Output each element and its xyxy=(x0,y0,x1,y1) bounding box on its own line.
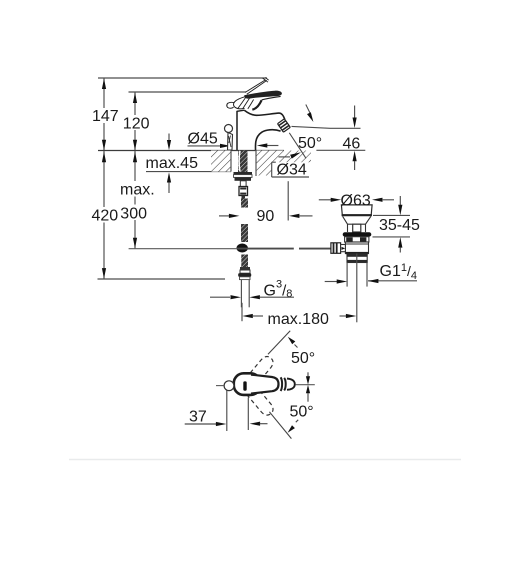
arrow max45 up xyxy=(168,182,170,193)
plan lever tip xyxy=(287,379,295,390)
arrow 420 down xyxy=(102,268,106,279)
svg-text:Ø34: Ø34 xyxy=(277,162,307,179)
supply hose segment 3 xyxy=(241,255,248,268)
arrow 147 up xyxy=(102,79,106,90)
aerator ball outlet xyxy=(277,119,290,132)
wire pull rod reference line xyxy=(129,248,237,250)
svg-text:max.45: max.45 xyxy=(146,155,199,172)
plan centerline right xyxy=(296,384,315,386)
hose connector block xyxy=(239,187,248,196)
plan converge arrows xyxy=(307,372,309,377)
svg-text:90: 90 xyxy=(257,208,275,225)
plan 50 upper leader arrow xyxy=(295,345,298,348)
plan handle dot xyxy=(243,381,246,390)
label 420 xyxy=(90,207,119,223)
svg-text:50°: 50° xyxy=(298,135,322,152)
label max. xyxy=(119,181,153,197)
arrow max300 down xyxy=(133,238,137,249)
svg-text:300: 300 xyxy=(120,205,147,222)
supply hose segment 1 xyxy=(241,199,248,208)
wire extension line x104 xyxy=(103,78,105,279)
separator rule xyxy=(69,459,461,461)
svg-text:max.180: max.180 xyxy=(268,311,329,328)
arrow 120 down xyxy=(133,140,137,151)
mounting washer xyxy=(234,172,253,175)
deck slab left (hatched) xyxy=(211,151,231,172)
waste mid body xyxy=(345,242,368,253)
plan dashed lever lower 50 xyxy=(246,385,276,417)
plan body (cartridge housing) xyxy=(234,373,261,395)
label 300 xyxy=(119,205,151,221)
svg-text:Ø45: Ø45 xyxy=(188,131,218,148)
wire D34 extension to 90 dim xyxy=(287,181,289,220)
arrow D45 left xyxy=(267,145,279,147)
svg-text:37: 37 xyxy=(189,409,207,426)
handle raised ghost lines xyxy=(247,80,267,94)
wire deck top right segment to 46 dim xyxy=(316,149,365,151)
plan knob circle xyxy=(224,381,234,391)
pop-up knob stem xyxy=(228,133,233,151)
junction dot xyxy=(237,244,248,253)
arrow 50deg lower (on axis) xyxy=(279,156,291,158)
mounting nut xyxy=(235,177,252,180)
svg-text:50°: 50° xyxy=(290,404,314,421)
arrow 420 up xyxy=(102,152,106,163)
svg-text:120: 120 xyxy=(123,115,150,132)
dimension 90 xyxy=(219,215,230,217)
wire spout axis diagonal xyxy=(289,133,306,159)
dimension 46 xyxy=(354,106,356,119)
plan dashed lever upper 50 xyxy=(246,354,276,386)
waste tail pipe xyxy=(346,263,348,287)
body left edge xyxy=(236,111,238,150)
wire deck bottom line left xyxy=(146,171,231,173)
arrow max300 up xyxy=(133,152,137,163)
svg-text:147: 147 xyxy=(92,108,119,125)
label 147 xyxy=(91,108,119,123)
wire deck top surface line xyxy=(98,150,284,152)
pop-up waste assembly xyxy=(331,205,372,322)
spout underside and body right edge xyxy=(255,130,280,150)
arrow 147 down xyxy=(102,140,106,151)
arrow 120 up xyxy=(133,93,137,104)
waste upper body xyxy=(345,237,369,242)
waste center line xyxy=(356,254,358,323)
G3/8 tail pipe xyxy=(240,280,242,308)
svg-text:Ø63: Ø63 xyxy=(341,193,371,210)
wire bottom reference line 420 xyxy=(98,278,226,280)
wire horizontal ray xyxy=(292,126,361,128)
plan lever xyxy=(251,375,279,394)
plan centerline left xyxy=(216,385,224,387)
spout top edge xyxy=(244,110,284,119)
G3/8 connector xyxy=(240,267,250,270)
arrow D45 right xyxy=(188,145,222,147)
faucet shank through deck (dense hatch) xyxy=(238,151,248,173)
label 120 xyxy=(122,115,150,130)
handle rear sketch curls xyxy=(234,96,247,108)
hose neck xyxy=(242,196,246,199)
wire top reference line 147 xyxy=(98,77,267,79)
pull rod xyxy=(237,248,294,250)
waste notch xyxy=(353,224,361,232)
pop-up knob circle xyxy=(225,125,233,133)
svg-text:46: 46 xyxy=(343,136,361,153)
plan lever ridges xyxy=(281,377,283,391)
arrow max45 down xyxy=(168,134,170,142)
waste thread section xyxy=(347,254,367,262)
plan diagonal lower xyxy=(269,412,291,439)
handle underside line xyxy=(262,96,281,100)
rod connector block xyxy=(331,243,341,254)
handle lever (rest position, thick) xyxy=(244,91,282,99)
label D34 box xyxy=(271,162,273,177)
svg-text:50°: 50° xyxy=(291,350,315,367)
label max.45 xyxy=(144,155,199,171)
arrow 50deg upper xyxy=(306,105,311,116)
plan diagonal upper xyxy=(268,331,290,354)
deck slab right (hatched) xyxy=(256,151,311,176)
node deck hole right edge xyxy=(255,151,257,177)
waste top cap xyxy=(341,205,372,215)
faucet body side view xyxy=(227,78,285,151)
dimension D63 xyxy=(319,199,331,201)
supply hose segment 2 xyxy=(241,224,248,242)
wire 120 reference line xyxy=(129,91,247,93)
svg-text:35-45: 35-45 xyxy=(379,217,420,234)
waste flange (black band) xyxy=(343,232,372,237)
svg-text:max.: max. xyxy=(120,182,155,199)
svg-text:420: 420 xyxy=(92,208,119,225)
body shoulder left xyxy=(237,110,244,111)
dimension 35-45 xyxy=(373,214,410,216)
dimension max.180 xyxy=(241,303,243,321)
body top ridge xyxy=(252,100,261,109)
node deck hole left edge xyxy=(230,151,232,172)
waste cone xyxy=(343,216,371,224)
shank stem xyxy=(240,181,246,187)
plan 50 lower leader arrow xyxy=(296,420,298,422)
wire extension line x135 xyxy=(134,92,136,249)
